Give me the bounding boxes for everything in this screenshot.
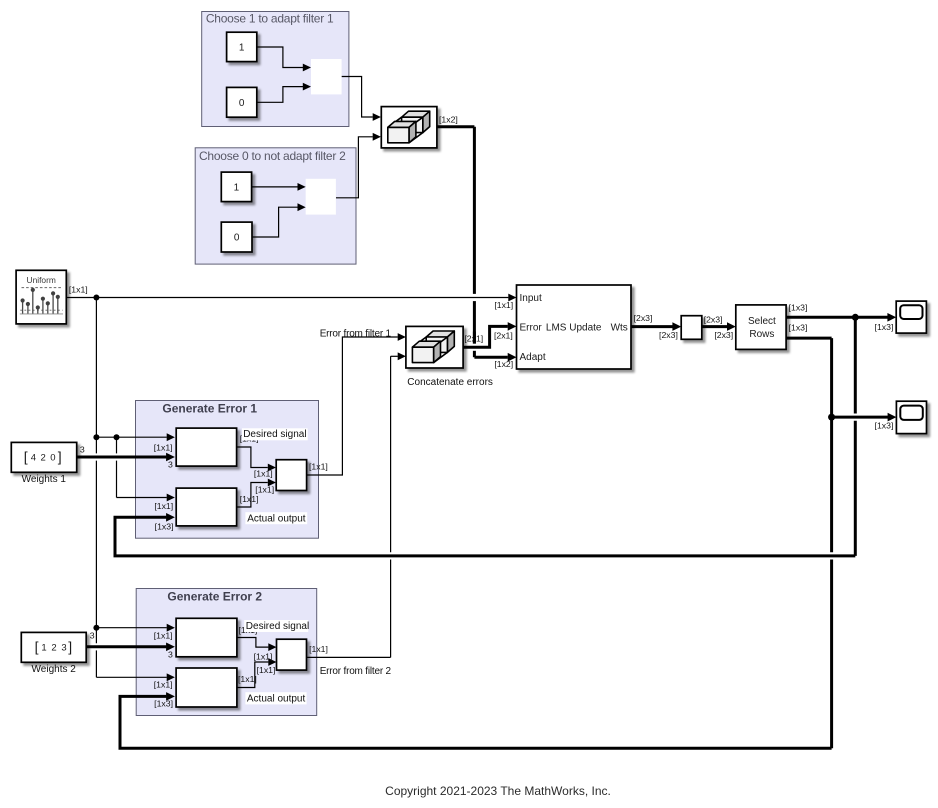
wire Concatenate errors out to LMS Error [2x1]	[463, 326, 508, 347]
svg-text:[1x1]: [1x1]	[254, 652, 273, 662]
svg-text:Actual output: Actual output	[247, 693, 306, 704]
svg-text:Error from filter 1: Error from filter 1	[320, 329, 392, 340]
wire row2 to Scope2 [1x3]	[832, 416, 888, 419]
wire trunk to Filter2a in1	[96, 627, 166, 629]
svg-text:[1x1]: [1x1]	[154, 631, 173, 641]
wire Select Rows out1 to Scope1 [1x3]	[786, 316, 888, 319]
wire Constant0b to ManualSwitch2	[252, 207, 298, 237]
svg-text:Uniform: Uniform	[27, 275, 56, 285]
filter block F2a desired	[176, 618, 237, 657]
scope block Scope2	[896, 401, 926, 433]
svg-text:[1x1]: [1x1]	[257, 665, 276, 675]
svg-text:[1x1]: [1x1]	[154, 680, 173, 690]
svg-text:Generate Error 2: Generate Error 2	[167, 590, 262, 604]
wire trunk to Filter1a in1	[96, 436, 166, 438]
svg-text:[1x1]: [1x1]	[494, 300, 513, 310]
wire Error from filter 2 (Sum2 to Concat in2)	[306, 656, 390, 658]
svg-text:[1x1]: [1x1]	[254, 469, 273, 479]
svg-text:Copyright 2021-2023 The MathWo: Copyright 2021-2023 The MathWorks, Inc.	[385, 784, 611, 798]
junction dot uniform main	[93, 295, 99, 301]
svg-text:1 2 3: 1 2 3	[41, 642, 66, 653]
svg-text:[2x1]: [2x1]	[494, 330, 513, 340]
svg-text:]: ]	[58, 449, 62, 465]
label Actual output (gen2)	[245, 692, 306, 704]
wire Weights2 to Filter2a in2	[86, 645, 166, 648]
weights 1 constant block	[11, 442, 76, 472]
junction dot gen1 feed	[93, 434, 99, 440]
manual switch SW1	[311, 59, 342, 94]
svg-text:Concatenate errors: Concatenate errors	[407, 377, 493, 388]
svg-text:Rows: Rows	[749, 329, 774, 340]
wire Filter1a to Sum1 in1	[237, 447, 268, 468]
junction dot gen2 feed	[93, 625, 99, 631]
svg-text:3: 3	[80, 444, 85, 454]
wire Weights1 to Filter1a in2	[77, 456, 167, 459]
svg-text:[2x3]: [2x3]	[704, 315, 723, 325]
svg-text:[1x2]: [1x2]	[494, 359, 513, 369]
sum block S2	[277, 639, 307, 670]
weights 2 constant block	[21, 632, 86, 662]
wire segment overlay on [2x1] label	[473, 332, 476, 344]
wire Constant1b to ManualSwitch2	[252, 186, 298, 188]
svg-text:[1x3]: [1x3]	[875, 322, 894, 332]
svg-text:Generate Error 1: Generate Error 1	[162, 401, 257, 415]
wire Constant1 to ManualSwitch1	[257, 47, 303, 68]
svg-text:[1x1]: [1x1]	[238, 674, 257, 684]
svg-text:Choose 1 to adapt filter 1: Choose 1 to adapt filter 1	[206, 11, 334, 25]
svg-text:3: 3	[168, 649, 173, 659]
svg-text:[1x1]: [1x1]	[154, 501, 173, 511]
wire Select Rows out2 down	[786, 337, 832, 340]
wire Uniform to LMS Input	[66, 297, 508, 299]
svg-text:3: 3	[90, 630, 95, 640]
area Generate Error 1	[136, 401, 319, 539]
junction dot row1	[852, 314, 859, 321]
filter block F2b actual	[176, 668, 237, 707]
svg-text:1: 1	[239, 43, 245, 54]
wire Delay to Select Rows [2x3]	[702, 325, 728, 328]
svg-text:Adapt: Adapt	[520, 352, 546, 363]
svg-text:[2x3]: [2x3]	[634, 313, 653, 323]
label Actual output (gen1)	[245, 512, 307, 524]
constant C0 value 0	[227, 87, 257, 117]
constant C0b value 0	[221, 222, 252, 252]
svg-text:[2x3]: [2x3]	[659, 330, 678, 340]
svg-text:[2x3]: [2x3]	[714, 330, 733, 340]
svg-text:4 2 0: 4 2 0	[31, 452, 56, 463]
wire Filter1b to Sum1 in2	[237, 483, 268, 508]
junction dot gen1 branch	[114, 434, 120, 440]
svg-text:[1x1]: [1x1]	[154, 442, 173, 452]
svg-text:[: [	[24, 449, 28, 465]
wire Filter2b to Sum2 in2	[237, 662, 269, 688]
svg-text:[: [	[35, 639, 39, 655]
wire Error from filter 1 (Sum1 to Concat in1)	[307, 337, 398, 475]
manual switch SW2	[306, 179, 336, 215]
wire ManualSwitch2 to MatrixConcat1 in2	[336, 137, 373, 198]
svg-text:[1x3]: [1x3]	[789, 322, 808, 332]
svg-text:Input: Input	[520, 293, 542, 304]
svg-text:Error: Error	[520, 323, 543, 334]
filter block F1b actual	[176, 488, 236, 526]
area Choose 0 to not adapt filter 2	[195, 148, 356, 264]
delay block D1	[681, 316, 702, 340]
wire LMS Wts to Delay [2x3]	[631, 325, 673, 328]
matrix concatenate MC1	[381, 107, 437, 148]
concatenate errors block MC2	[406, 326, 463, 368]
svg-text:Select: Select	[748, 316, 776, 327]
wire uniform vertical trunk	[95, 298, 97, 454]
uniform random source block	[16, 270, 66, 324]
svg-text:Desired signal: Desired signal	[243, 429, 306, 440]
area Choose 1 to adapt filter 1	[202, 12, 349, 127]
svg-text:[1x1]: [1x1]	[69, 284, 88, 294]
svg-text:Error from filter 2: Error from filter 2	[320, 666, 392, 677]
svg-text:Actual output: Actual output	[247, 513, 306, 524]
svg-text:3: 3	[168, 460, 173, 470]
wire branch to Filter1b in1	[116, 437, 118, 453]
wire row1 feedback to Filter1b in2	[854, 317, 857, 413]
svg-text:Choose 0 to not adapt filter 2: Choose 0 to not adapt filter 2	[199, 149, 346, 163]
svg-text:[1x3]: [1x3]	[154, 699, 173, 709]
svg-text:[1x3]: [1x3]	[789, 303, 808, 313]
LMS Update block U1	[517, 285, 632, 369]
sum block S1	[276, 460, 306, 491]
label Desired signal (gen1)	[242, 428, 308, 440]
wire Filter2a to Sum2 in1	[237, 638, 269, 648]
svg-text:[1x2]: [1x2]	[439, 114, 458, 124]
junction dot row2	[828, 414, 835, 421]
svg-text:Weights 1: Weights 1	[22, 474, 67, 485]
svg-text:Desired signal: Desired signal	[246, 621, 309, 632]
svg-text:[1x1]: [1x1]	[255, 485, 274, 495]
filter block F1a desired	[176, 428, 236, 466]
area Generate Error 2	[136, 589, 317, 716]
label Desired signal (gen2)	[244, 620, 308, 632]
svg-text:LMS Update: LMS Update	[546, 323, 602, 334]
svg-text:]: ]	[68, 639, 72, 655]
svg-text:0: 0	[234, 233, 240, 244]
constant C1 value 1	[227, 32, 257, 61]
svg-text:[1x1]: [1x1]	[309, 462, 328, 472]
wire ManualSwitch1 to MatrixConcat1 in1	[342, 77, 373, 118]
constant C1b value 1	[221, 172, 251, 202]
svg-text:[1x3]: [1x3]	[875, 421, 894, 431]
svg-text:[1x3]: [1x3]	[155, 521, 174, 531]
svg-text:Wts: Wts	[611, 323, 628, 334]
scope block Scope1	[896, 301, 926, 333]
svg-text:0: 0	[239, 98, 245, 109]
svg-text:Weights 2: Weights 2	[32, 664, 77, 675]
wire Constant0 to ManualSwitch1	[257, 87, 303, 103]
svg-text:[1x1]: [1x1]	[309, 644, 328, 654]
svg-text:[1x1]: [1x1]	[240, 494, 259, 504]
svg-text:1: 1	[234, 182, 240, 193]
wire MatrixConcat1 out to LMS Adapt [1x2]	[437, 125, 475, 128]
select rows block	[736, 305, 786, 350]
